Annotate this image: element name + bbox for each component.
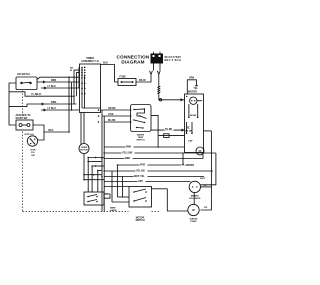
power cord connector plug [151, 52, 164, 64]
svg-text:LT BLU: LT BLU [48, 85, 57, 88]
wire LT BLU lower [41, 107, 79, 111]
wire plug leads [153, 64, 155, 71]
svg-text:BRN: BRN [51, 79, 56, 82]
wire left loop from lid switch [9, 83, 16, 125]
node labels BK W at timer top [70, 67, 74, 72]
svg-text:WTR LVL: WTR LVL [25, 134, 35, 136]
drive motor M2 [185, 91, 204, 153]
label harness [110, 208, 117, 213]
svg-text:BK: BK [204, 185, 208, 187]
svg-text:ADVANCE TO: ADVANCE TO [16, 114, 31, 117]
wire V-BK timer to temp switch [98, 114, 132, 117]
push to start switch S2 [16, 114, 34, 130]
wire YELLOW [104, 150, 216, 154]
svg-text:SOLENOID: SOLENOID [189, 198, 201, 200]
wire BU [104, 174, 204, 178]
timer assembly T1 [80, 57, 101, 113]
svg-text:SWITCH: SWITCH [136, 139, 145, 141]
svg-text:YL-BK-R: YL-BK-R [31, 93, 41, 96]
svg-text:TH-BK: TH-BK [165, 129, 172, 131]
pump motor M3 [189, 178, 206, 200]
wire push to start to water level [33, 125, 44, 140]
svg-text:WHT: WHT [200, 178, 206, 180]
console dashed boundary [23, 91, 161, 212]
svg-text:BLK: BLK [103, 61, 108, 64]
svg-text:CW: CW [204, 207, 208, 209]
wire YEL-BK [104, 168, 213, 172]
svg-text:BRN: BRN [51, 101, 56, 104]
svg-text:WTR: WTR [31, 149, 36, 151]
title CONNECTION DIAGRAM [117, 55, 150, 65]
svg-text:LIMITER: LIMITER [185, 165, 195, 167]
wire BRN lower [9, 101, 77, 106]
water pump M4 [188, 204, 199, 223]
thermal limiter [182, 153, 194, 167]
wire lid switch top to timer [37, 77, 80, 79]
wire RED [104, 153, 203, 160]
svg-text:SWITCH: SWITCH [135, 220, 144, 222]
wire bundle verticals into timer [69, 67, 80, 132]
svg-text:BU-BK: BU-BK [108, 120, 116, 122]
capacitor C1 [196, 147, 204, 155]
svg-text:3M 4M: 3M 4M [190, 114, 197, 117]
wire BRN lid switch to timer [37, 79, 80, 83]
svg-text:RED: RED [125, 157, 130, 160]
svg-text:START SW: START SW [16, 117, 29, 120]
svg-text:MOTOR: MOTOR [188, 91, 197, 94]
motor start switch S5 [129, 187, 152, 223]
svg-text:BRAKE: BRAKE [191, 194, 199, 197]
svg-text:OR-BK: OR-BK [108, 108, 116, 110]
plug prong right [157, 71, 160, 79]
svg-text:MOTOR: MOTOR [80, 149, 88, 151]
wire LT BLU [41, 85, 80, 89]
wire right rail 2 [201, 153, 216, 185]
svg-text:LVL: LVL [31, 152, 36, 154]
wire PUR [117, 162, 181, 166]
svg-text:WHT-YEL: WHT-YEL [134, 175, 145, 178]
wire temp switch to pink line [152, 115, 159, 147]
wire GRY [104, 179, 190, 183]
wire timer internal bus [81, 67, 101, 144]
svg-text:ASSEMBLY LR: ASSEMBLY LR [81, 60, 99, 63]
wire BLK-W fuse to plug [115, 79, 152, 82]
svg-text:V-BK: V-BK [108, 114, 114, 116]
svg-text:YELLOW: YELLOW [122, 151, 133, 154]
svg-text:LT BLU: LT BLU [48, 107, 57, 110]
wire WHT lower [104, 187, 188, 212]
wire GRN jumper at motor [187, 78, 198, 94]
svg-text:PNK: PNK [126, 145, 131, 148]
svg-text:YEL-BK: YEL-BK [136, 169, 145, 172]
timer left terminals [81, 66, 86, 94]
water temp switch S4 [131, 105, 152, 142]
wire BU-BK timer to temp switch [98, 120, 132, 123]
plug prong left [150, 71, 153, 79]
wire relay to right [104, 194, 110, 198]
svg-text:PUMP: PUMP [190, 221, 197, 223]
svg-text:GRN: GRN [189, 78, 194, 80]
wire GRN power cord to motor frame [157, 79, 184, 101]
wire motor box to right rail [201, 131, 212, 210]
svg-text:REV 2 SCH: REV 2 SCH [165, 58, 181, 62]
lid switch S1 [16, 73, 37, 90]
wire pump link [194, 185, 211, 209]
svg-text:MOTOR: MOTOR [136, 217, 145, 219]
timer lower terminal rows [84, 158, 104, 180]
fuse F1 [118, 76, 136, 86]
timer motor M1 [79, 113, 89, 180]
svg-text:CAP: CAP [188, 140, 193, 143]
svg-text:PUR: PUR [140, 163, 145, 166]
motor relay box K1 [84, 192, 109, 205]
svg-text:FUSE: FUSE [120, 76, 127, 79]
svg-text:BLK: BLK [49, 129, 54, 132]
svg-text:WATER: WATER [190, 217, 198, 220]
wire YL-BK-R [9, 92, 74, 96]
wire TH-BK to motor [151, 127, 185, 137]
svg-text:BK-W: BK-W [139, 79, 146, 82]
part number text [165, 55, 182, 62]
wire BLK timer to fuse [101, 61, 115, 82]
svg-text:LID SW N.C.: LID SW N.C. [17, 73, 31, 76]
wire OR-BK timer to temp switch [98, 108, 132, 111]
wire BLK water level to timer [44, 129, 69, 132]
svg-text:GRY: GRY [138, 180, 143, 183]
wire vertical links to motor switch [112, 165, 129, 202]
wire PNK [104, 144, 184, 148]
junction dots [68, 76, 77, 132]
junction dots on bus [101, 146, 159, 177]
wire verticals below timer [88, 110, 104, 212]
svg-text:1M 2M: 1M 2M [185, 131, 192, 133]
water level switch S3 [25, 134, 38, 157]
svg-text:DIAGRAM: DIAGRAM [121, 59, 144, 64]
svg-text:HARN: HARN [110, 209, 117, 212]
svg-text:YEL: YEL [193, 88, 198, 90]
svg-text:BK: BK [70, 67, 74, 69]
